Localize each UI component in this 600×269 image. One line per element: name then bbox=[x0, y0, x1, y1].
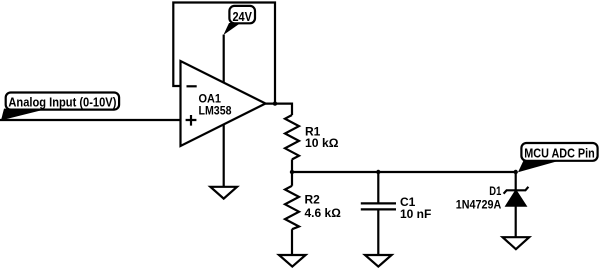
wire: divider node across to C1 and D1 bbox=[292, 171, 516, 173]
resistor R2 bbox=[285, 186, 299, 229]
wire: R1 bottom to R2 top through divider node bbox=[291, 159, 293, 185]
op-amp inverting input marker bbox=[187, 85, 197, 87]
op-amp non-inverting input marker bbox=[186, 115, 197, 126]
net label: MCU ADC Pin callout bbox=[518, 143, 598, 172]
svg-text:10 nF: 10 nF bbox=[400, 207, 431, 221]
svg-text:MCU ADC Pin: MCU ADC Pin bbox=[524, 146, 595, 161]
svg-text:R2: R2 bbox=[305, 193, 321, 207]
wire: 24V supply down to op-amp V+ pin bbox=[223, 35, 225, 83]
op-amp OA1 triangle body bbox=[181, 61, 266, 146]
svg-text:LM358: LM358 bbox=[199, 103, 232, 117]
wire: analog input to non-inverting input bbox=[0, 119, 181, 121]
zener diode D1 body bbox=[507, 191, 526, 206]
wire: C1 top lead bbox=[377, 172, 379, 203]
ground (below op-amp) bbox=[210, 187, 237, 199]
wire: node to zener D1 cathode bbox=[515, 172, 517, 190]
node: divider junction bbox=[290, 170, 294, 174]
wire: op-amp output to R1 top bbox=[266, 104, 293, 115]
node: D1 junction bbox=[514, 170, 518, 174]
ground (below R2) bbox=[279, 255, 306, 267]
net label: 24V supply callout bbox=[223, 6, 255, 35]
svg-text:D1: D1 bbox=[489, 186, 501, 198]
svg-text:1N4729A: 1N4729A bbox=[456, 199, 502, 211]
svg-text:10 kΩ: 10 kΩ bbox=[305, 136, 339, 150]
net label: Analog Input (0-10V) callout bbox=[1, 93, 119, 121]
wire: feedback loop from inverting input up over to output bbox=[173, 3, 275, 104]
ground (below D1) bbox=[503, 237, 530, 249]
svg-text:4.6 kΩ: 4.6 kΩ bbox=[305, 206, 342, 220]
node: C1 junction bbox=[376, 170, 380, 174]
node: output junction bbox=[273, 101, 277, 105]
wire: C1 bottom lead to ground bbox=[377, 209, 379, 255]
svg-text:24V: 24V bbox=[232, 10, 252, 24]
svg-text:Analog Input (0-10V): Analog Input (0-10V) bbox=[8, 94, 116, 109]
wire: R2 bottom to ground bbox=[291, 229, 293, 255]
wire: D1 anode to ground bbox=[515, 206, 517, 238]
resistor R1 bbox=[285, 115, 299, 159]
zener diode D1 cathode bar bbox=[504, 187, 529, 194]
wire: op-amp V- pin down to ground bbox=[223, 125, 225, 187]
capacitor C1 bbox=[361, 203, 396, 209]
ground (below C1) bbox=[365, 255, 392, 267]
